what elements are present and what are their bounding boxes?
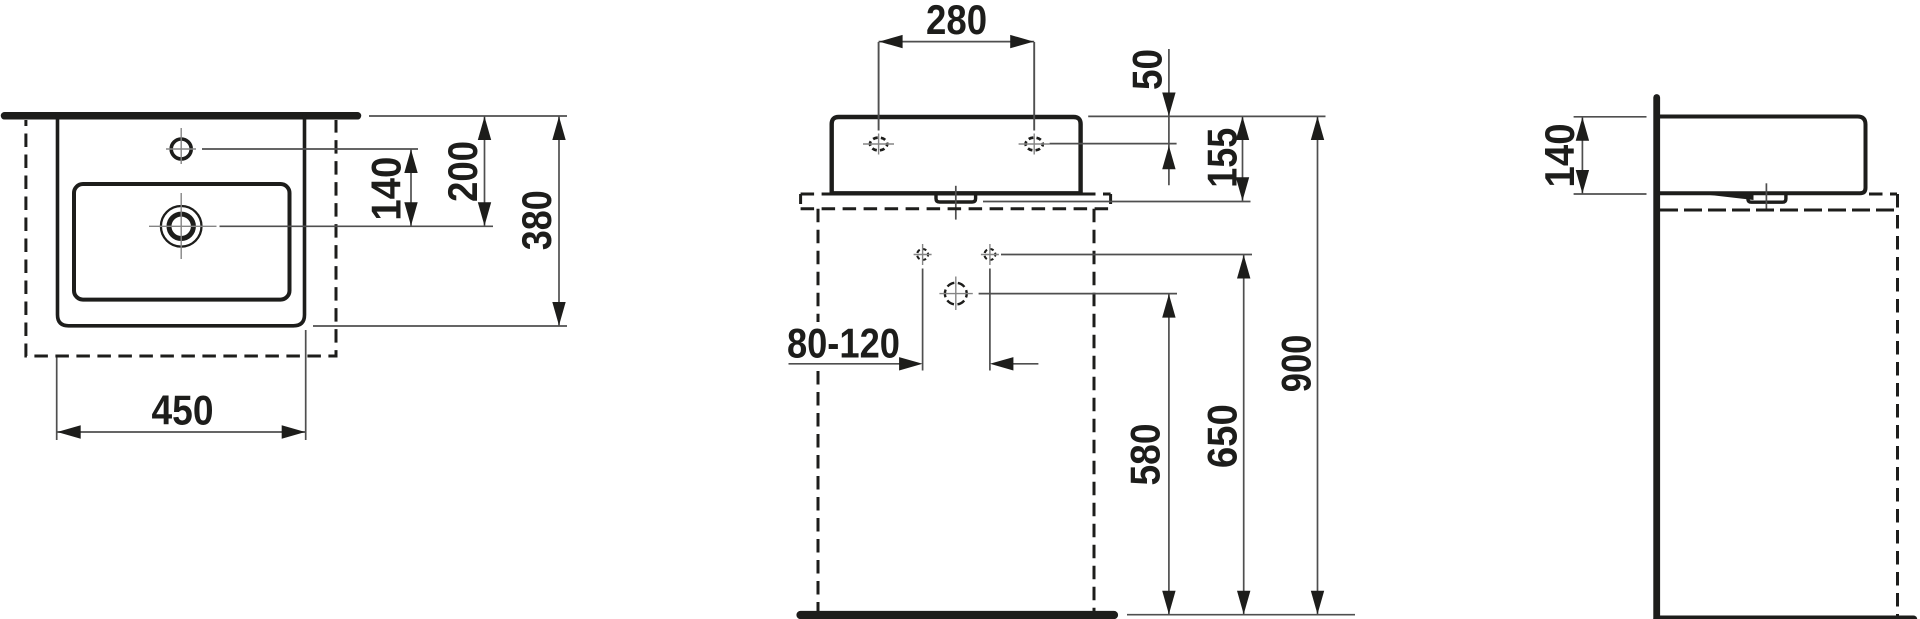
dimension 140 line (side view) [1581,117,1583,194]
installation clearance dashed outline [26,120,336,356]
floor line (side view) [1657,616,1914,619]
svg-text:380: 380 [513,190,560,250]
extension line wall drain right [979,293,1177,295]
basin bowl inner rim [74,184,290,300]
basin profile (side view) [1658,117,1866,194]
pedestal dashed left edge (upper) [817,209,820,322]
dimension 140 line (top view) [410,149,412,226]
pedestal dashed edge (side) [1896,194,1899,616]
svg-text:140: 140 [363,157,410,221]
wall drain hole (dashed circle) [945,283,967,305]
drain trap centerline (side) [1765,183,1767,210]
tap hole left centerlines [878,134,880,155]
extension line basin bottom (side) [1574,193,1647,195]
svg-text:140: 140 [1536,123,1583,187]
extension line wall top [369,115,567,117]
drain trap (front) [936,195,976,203]
svg-text:200: 200 [439,141,486,202]
wall line (top view) [5,112,358,120]
svg-text:155: 155 [1198,128,1245,188]
shelf dashed bottom [801,207,1111,210]
shelf dashed top left segment [801,193,830,196]
svg-text:580: 580 [1122,424,1169,486]
tap hole left (dashed) [870,138,887,151]
dimension 650 line [1243,255,1245,615]
svg-text:280: 280 [926,0,987,43]
drain vertical centerline [180,193,182,259]
drain trap (side) [1748,195,1786,203]
extension line drain center [149,225,217,227]
fixing hole right centerlines [989,244,991,265]
svg-text:450: 450 [152,386,214,433]
extension line faucet hole [202,148,418,150]
svg-text:650: 650 [1198,404,1245,468]
pedestal dashed right edge [1093,209,1096,611]
drain slope wedge [1707,195,1754,200]
shelf dashed top right (side) [1869,193,1897,196]
dimension 155 line [1242,116,1244,201]
extension line 280 left [878,42,880,131]
extension line 450 right [305,330,307,440]
dimension 580 line [1168,294,1170,615]
extension line fixing holes right [1001,254,1252,256]
extension line 280 right [1033,42,1035,131]
dimension 450 line [57,431,306,433]
fixing hole left (dashed circle) [917,249,928,260]
extension line tap hole right [1050,143,1177,145]
extension line basin top (side) [1574,116,1647,118]
extension line shelf bottom right [983,201,1251,203]
extension line basin bottom edge [313,325,567,327]
shelf dashed right edge [1109,194,1112,209]
floor line (front view) [801,611,1115,619]
svg-text:50: 50 [1123,49,1170,90]
extension line 450 left [56,358,58,441]
fixing hole right (dashed circle) [984,249,995,260]
dimension 380 line [558,116,560,326]
shelf dashed top right segment [1082,193,1111,196]
dimension 200 line [484,116,486,226]
tap hole right centerlines [1033,134,1035,155]
dimension 280 line [879,41,1035,43]
shelf dashed line (side) [1660,209,1897,212]
dimension 900 line [1317,116,1319,615]
faucet hole [171,139,191,159]
drain inner circle [169,214,193,238]
faucet hole centerlines [180,128,182,164]
drain trap centerline (front) [955,186,957,220]
svg-text:80-120: 80-120 [787,319,900,366]
dimension 80-120 left segment [789,363,900,365]
measure line fixing hole left [922,269,924,371]
wall drain centerlines [955,277,957,311]
basin outer rim (top view) [58,114,305,326]
svg-text:900: 900 [1272,335,1319,393]
wall line (side view) [1653,98,1660,619]
pedestal dashed left edge (lower) [817,371,820,611]
drain outer circle [161,206,202,247]
extension line floor right [1127,614,1355,616]
measure line fixing hole right [989,269,991,371]
extension line basin top right [1088,115,1325,117]
dimension 50 (outside arrows) [1168,49,1170,185]
basin front outline [832,117,1081,193]
dimension 80-120 right segment [1013,363,1038,365]
fixing hole left centerlines [922,244,924,265]
tap hole right (dashed) [1026,138,1043,151]
shelf dashed left edge [799,194,802,209]
